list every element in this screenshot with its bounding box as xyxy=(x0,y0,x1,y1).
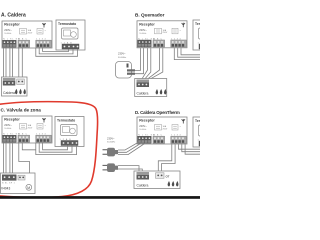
svg-text:50-60Hz: 50-60Hz xyxy=(118,57,126,59)
wires receptor B to boiler B xyxy=(142,48,163,79)
wires plug D2 to boiler D xyxy=(118,166,142,173)
title B. Quemador xyxy=(135,13,165,18)
wires plug D1 to receptor D xyxy=(118,142,145,155)
svg-text:OT: OT xyxy=(166,175,170,179)
receptor U-A xyxy=(2,21,52,48)
boiler box D with OT xyxy=(134,171,180,189)
antenna A xyxy=(42,23,45,28)
wires receptor A middle group to caldera A xyxy=(19,48,23,79)
svg-text:Caldera: Caldera xyxy=(137,184,149,188)
receptor U-B xyxy=(137,21,187,48)
thermostat T-D (cut at edge) xyxy=(193,117,222,147)
zone valve box V4043 xyxy=(1,173,36,194)
antenna D xyxy=(182,119,185,124)
wires receptor D to OT terminals xyxy=(158,144,175,172)
title A. Caldera xyxy=(1,13,26,19)
label 230V D xyxy=(107,136,115,143)
thermostat T-B (cut at edge) xyxy=(193,20,222,50)
thermostat T-A xyxy=(56,20,85,50)
title D. Caldera OpenTherm xyxy=(135,110,180,115)
wire bundle receptor B to thermostat B xyxy=(174,48,200,60)
bottom black bar xyxy=(0,196,200,199)
wire bundle receptor C to thermostat C xyxy=(36,143,77,155)
wires socket B to receptor B xyxy=(135,48,144,74)
boiler box A xyxy=(2,77,28,96)
svg-text:N SL SP 1: N SL SP 1 xyxy=(2,183,15,185)
wire bundle receptor A to thermostat A xyxy=(36,48,78,57)
mains plug D1 xyxy=(103,148,119,157)
wires receptor C left group to valve xyxy=(3,143,12,176)
svg-text:230V~: 230V~ xyxy=(118,52,126,56)
thermostat T-C xyxy=(55,117,84,147)
red hand-drawn circle around section C xyxy=(0,102,98,198)
svg-text:M: M xyxy=(27,186,30,190)
mains plug D2 xyxy=(103,163,119,172)
svg-text:B. Quemador: B. Quemador xyxy=(135,13,165,18)
svg-text:50-60Hz: 50-60Hz xyxy=(107,142,115,144)
label 230V socket B xyxy=(118,52,126,59)
svg-text:V4043: V4043 xyxy=(1,187,10,191)
svg-text:230V~: 230V~ xyxy=(107,136,115,140)
svg-text:D. Caldera OpenTherm: D. Caldera OpenTherm xyxy=(135,110,180,115)
wire bundle receptor D to right edge xyxy=(179,144,201,154)
receptor U-D xyxy=(137,117,187,144)
wire receptor C middle to valve (z-path) xyxy=(19,143,30,174)
svg-text:Caldera: Caldera xyxy=(3,91,15,95)
wires receptor A left group to caldera A xyxy=(3,48,12,79)
receptor U-C xyxy=(2,116,52,143)
svg-text:A. Caldera: A. Caldera xyxy=(1,13,26,19)
svg-text:C. Válvula de zona: C. Válvula de zona xyxy=(1,108,42,113)
svg-text:Caldera: Caldera xyxy=(137,92,149,96)
wall socket icon B xyxy=(116,62,136,79)
antenna C xyxy=(42,118,45,123)
title C. Valvula de zona xyxy=(1,108,42,113)
boiler box B xyxy=(135,79,167,97)
wire receptor C middle to bundle xyxy=(22,143,36,150)
antenna B xyxy=(182,23,185,28)
